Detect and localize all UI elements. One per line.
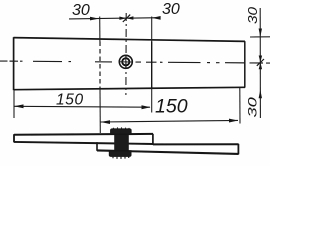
front view: upper plate right end edge [152, 134, 154, 145]
arrow pointing down tip y=37 [259, 29, 262, 37]
hole inner circle (rivet) [122, 58, 129, 65]
arrow right tip x=150 [142, 105, 151, 109]
svg-text:30: 30 [72, 2, 90, 19]
rivet bottom head hatch ticks [113, 156, 129, 159]
rivet bottom head [109, 151, 131, 157]
front view: upper plate top edge [14, 133, 153, 136]
butterfly at centre line y=62.5 [259, 56, 262, 63]
rivet top head hatch ticks [114, 127, 130, 128]
svg-text:30: 30 [246, 7, 261, 24]
vertical centre line of hole (dash-dot) [125, 13, 127, 95]
horizontal centre line (dash-dot, explicit scan-matched segments) [0, 61, 270, 63]
svg-text:30: 30 [246, 97, 259, 118]
extension line x=100 (below plate) [99, 89, 101, 134]
extension line x=151.7 (below plate) [151, 88, 153, 112]
front view: lower plate top edge (visible part) [153, 143, 239, 145]
right 150 dimension line [101, 120, 239, 122]
top view: plate outline bottom edge [14, 87, 246, 89]
svg-text:30: 30 [162, 1, 180, 18]
top view: plate outline top edge [14, 38, 246, 42]
top dimension line 30/30 [69, 18, 160, 19]
front view: upper plate left edge [13, 134, 15, 142]
hidden edge of lower plate (dashed) [99, 42, 101, 89]
svg-text:150: 150 [155, 96, 188, 118]
front view: lower plate right end edge [237, 144, 239, 154]
extension line x=151.7 (above plate) [151, 17, 153, 42]
vertical dimension line x=260 (right side) [259, 8, 261, 118]
front view: lower plate bottom edge [97, 150, 239, 154]
top view: plate outline left edge [13, 37, 15, 90]
top view: plate 2 right edge [244, 41, 246, 87]
arrow at x=99 pointing right [90, 17, 99, 21]
arrow at x=151.7 pointing left [152, 16, 161, 20]
extension line x=240 (below plate, for right 150) [239, 88, 241, 124]
hole outer circle [119, 55, 132, 68]
top extension line y=37 [250, 36, 270, 38]
extension line x=14 (below plate, for 150) [13, 91, 15, 119]
svg-text:150: 150 [56, 92, 84, 109]
extension line x=100 (above plate) [99, 17, 101, 42]
arrow pointing up tip y=88.5 [259, 90, 262, 98]
rivet shank (filled, heavy ink in scan) [114, 134, 129, 153]
arrow right tip x=238 [229, 119, 238, 123]
front view: junction line (upper plate bottom) [14, 142, 153, 144]
front view: lower plate left edge [96, 142, 98, 151]
visible edge of upper plate [151, 42, 153, 89]
left 150 dimension line [14, 105, 150, 108]
hole centre cross [120, 56, 133, 68]
double arrow (butterfly) at hole centre line x=126.5 [119, 17, 126, 20]
arrow left tip x=14 [14, 104, 24, 108]
arrow left tip x=100.5 [101, 120, 111, 124]
rivet top head [111, 129, 132, 134]
